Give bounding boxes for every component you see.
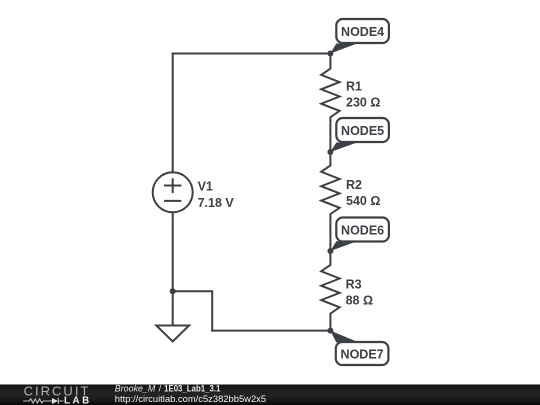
NODE5 label box — [336, 118, 389, 142]
node junction dot ground net — [170, 288, 176, 294]
node junction dot NODE7 — [327, 328, 333, 334]
R1 value labels — [346, 80, 380, 110]
NODE4 label box — [336, 19, 389, 43]
NODE4 flag pointer — [330, 44, 357, 54]
svg-text:NODE4: NODE4 — [341, 25, 384, 39]
wire left vertical upper — [172, 54, 174, 173]
node A junction dot top (NODE4) — [327, 51, 333, 57]
wire junction right then down — [173, 291, 213, 330]
resistor R3 body — [321, 251, 339, 331]
footer credit line — [115, 384, 221, 394]
wire junction to ground lead — [172, 291, 174, 325]
node junction dot NODE5 — [327, 149, 333, 155]
wire top horizontal — [173, 53, 331, 55]
svg-text:LAB: LAB — [64, 396, 89, 405]
resistor R2 body — [321, 152, 339, 251]
svg-text:7.18 V: 7.18 V — [198, 196, 235, 210]
svg-text:http://circuitlab.com/c5z382bb: http://circuitlab.com/c5z382bb5w2x5 — [115, 394, 266, 404]
svg-text:Brooke_M: Brooke_M — [115, 384, 156, 394]
footer bar — [0, 385, 540, 405]
logo CircuitLab wordmark — [23, 384, 89, 405]
NODE6 label box — [336, 218, 389, 242]
voltage source V1 circle — [153, 172, 193, 212]
ground symbol triangle — [156, 326, 189, 342]
svg-text:NODE5: NODE5 — [341, 124, 384, 138]
svg-text:NODE7: NODE7 — [341, 348, 384, 362]
V1 plus sign — [165, 179, 180, 192]
logo diode — [52, 398, 58, 404]
svg-text:R2: R2 — [346, 178, 362, 192]
wire bottom horizontal — [212, 330, 330, 332]
node junction dot NODE6 — [327, 248, 333, 254]
svg-text:NODE6: NODE6 — [341, 224, 384, 238]
V1 value labels — [198, 180, 235, 210]
NODE7 flag pointer — [330, 331, 359, 343]
svg-text:V1: V1 — [198, 180, 213, 194]
svg-text:R3: R3 — [346, 278, 362, 292]
wire left vertical lower — [172, 212, 174, 291]
svg-text:540 Ω: 540 Ω — [346, 194, 380, 208]
svg-text:230 Ω: 230 Ω — [346, 96, 380, 110]
V1 minus sign — [165, 200, 180, 202]
svg-text:R1: R1 — [346, 80, 362, 94]
logo resistor zigzag — [23, 399, 52, 403]
NODE7 label box — [336, 342, 389, 365]
resistor R1 body — [321, 54, 339, 153]
svg-text:1E03_Lab1_3.1: 1E03_Lab1_3.1 — [164, 384, 220, 394]
NODE5 flag pointer — [330, 143, 357, 153]
NODE6 flag pointer — [330, 241, 357, 251]
R2 value labels — [346, 178, 380, 208]
svg-text:/: / — [159, 384, 162, 394]
R3 value labels — [346, 278, 373, 308]
svg-text:88 Ω: 88 Ω — [346, 293, 373, 307]
